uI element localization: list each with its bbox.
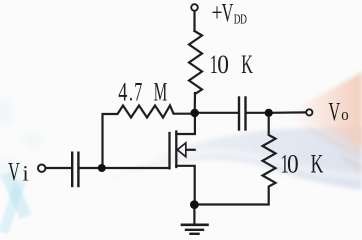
svg-text:o: o [341, 106, 349, 124]
svg-text:7: 7 [134, 77, 142, 106]
svg-text:D: D [240, 12, 247, 27]
svg-text:K: K [241, 50, 253, 79]
svg-text:V: V [329, 97, 341, 126]
svg-text:4: 4 [118, 77, 127, 106]
svg-text:.: . [129, 77, 133, 106]
svg-text:0: 0 [217, 51, 229, 79]
svg-text:+: + [212, 0, 223, 27]
svg-text:i: i [23, 160, 29, 185]
svg-text:K: K [311, 149, 324, 178]
svg-text:M: M [154, 77, 167, 106]
svg-text:V: V [8, 157, 20, 186]
svg-text:0: 0 [287, 150, 299, 178]
svg-text:V: V [222, 0, 234, 27]
